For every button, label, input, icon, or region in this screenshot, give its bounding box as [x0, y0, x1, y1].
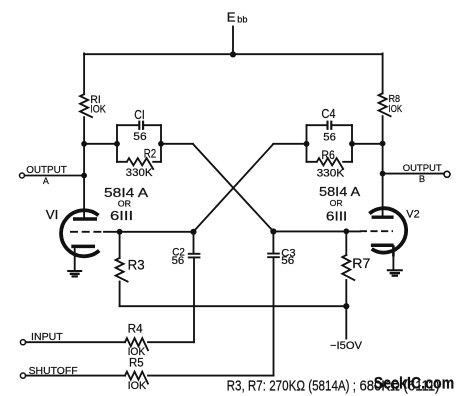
label tube type V1 — [104, 186, 149, 223]
node Ebb junction — [230, 51, 236, 57]
wire bias bus — [120, 305, 347, 307]
svg-text:bb: bb — [237, 15, 247, 25]
svg-text:IOK: IOK — [128, 380, 147, 392]
terminal INPUT — [20, 340, 25, 345]
label tube type V2 — [319, 185, 361, 223]
wire R5 to C3 — [148, 375, 274, 377]
wire node stub plate V1 to network — [84, 143, 117, 145]
node R7 top — [343, 228, 349, 234]
svg-text:IOK: IOK — [389, 104, 403, 115]
wire V1 cathode to ground — [74, 248, 76, 270]
svg-text:58I4 A: 58I4 A — [319, 185, 361, 199]
label R5 value — [128, 356, 147, 391]
capacitor C4 branch — [307, 121, 353, 130]
resistor R4 — [125, 338, 148, 350]
wire V1 plate branch upper — [83, 53, 85, 94]
triode V1 — [61, 210, 104, 256]
svg-text:V2: V2 — [406, 209, 419, 221]
wire -150V stub — [345, 306, 347, 338]
label OUTPUT B — [403, 163, 442, 184]
grid V2 dashed — [360, 230, 393, 232]
wire V2 cathode to ground — [392, 255, 394, 270]
resistor R6 — [307, 158, 353, 169]
label component values note — [227, 378, 440, 395]
label Ebb — [227, 10, 248, 25]
svg-text:6III: 6III — [326, 208, 347, 223]
resistor R3 — [116, 258, 128, 282]
cathode V2 — [371, 243, 394, 247]
wire cross-coupling diagonal to V2 grid — [193, 144, 273, 232]
svg-text:56: 56 — [323, 132, 336, 144]
svg-text:SeekIC.com: SeekIC.com — [374, 374, 455, 393]
wire network box sides right — [307, 125, 353, 162]
ground V2 — [387, 270, 403, 275]
svg-text:58I4 A: 58I4 A — [104, 186, 149, 200]
plate V2 — [372, 215, 394, 218]
svg-text:56: 56 — [133, 131, 146, 143]
node plate V1 — [81, 141, 87, 147]
capacitor C2 — [188, 232, 201, 342]
svg-text:VI: VI — [46, 208, 59, 222]
terminal OUTPUT A — [20, 173, 25, 178]
wire network box sides left — [117, 125, 161, 162]
svg-text:E: E — [227, 10, 236, 25]
wire R7 branch upper — [345, 231, 347, 255]
svg-text:R5: R5 — [129, 356, 144, 369]
svg-text:R7: R7 — [352, 256, 370, 271]
label R8 value — [389, 94, 403, 115]
wire R4 to C2 — [148, 341, 194, 343]
wire SHUTOFF lead — [26, 375, 125, 377]
label R2 value — [126, 147, 157, 179]
label C4 — [321, 107, 336, 143]
svg-text:C4: C4 — [321, 107, 335, 121]
wire cross-coupling diagonal to V1 grid — [194, 144, 274, 232]
terminal OUTPUT B — [444, 171, 450, 177]
node network2 right — [349, 141, 355, 147]
label R6 value — [317, 148, 345, 180]
terminal SHUTOFF — [20, 373, 25, 378]
svg-text:−I5OV: −I5OV — [330, 340, 363, 352]
wire V2 plate branch upper — [382, 53, 384, 93]
wire R3 branch upper — [119, 232, 121, 258]
resistor R5 — [125, 372, 148, 384]
node OUTPUT A — [81, 173, 87, 179]
wire R3 branch lower — [119, 282, 121, 307]
svg-text:B: B — [419, 174, 425, 184]
svg-text:CI: CI — [134, 108, 145, 122]
wire stub to diagonal — [161, 143, 193, 145]
resistor R8 — [379, 93, 391, 116]
svg-text:R3: R3 — [128, 257, 145, 272]
node network2 left — [304, 141, 310, 147]
svg-text:56: 56 — [172, 255, 185, 267]
wire V2 grid line — [273, 230, 360, 232]
wire stub to diagonal 2 — [273, 143, 306, 145]
svg-text:R6: R6 — [321, 148, 334, 162]
svg-text:IOK: IOK — [90, 104, 106, 116]
plate V1 — [73, 217, 97, 220]
wire stub network2 to R8 — [352, 143, 383, 145]
svg-text:R2: R2 — [144, 147, 156, 161]
node C3 top — [270, 228, 276, 234]
svg-text:R3, R7: 270KΩ (5814A) ;: R3, R7: 270KΩ (5814A) ; — [227, 378, 356, 395]
node R3 top — [117, 229, 123, 235]
label C3 — [281, 247, 295, 267]
wire top supply bus — [84, 53, 383, 55]
node network left — [114, 141, 120, 147]
label C2 — [172, 246, 185, 266]
node network right — [158, 141, 164, 147]
wire OUTPUT A lead — [25, 175, 85, 177]
svg-text:6III: 6III — [110, 208, 133, 223]
triode V2 — [360, 208, 406, 256]
label R1 value — [90, 94, 106, 116]
svg-text:OR: OR — [330, 199, 343, 208]
node OUTPUT B — [380, 171, 386, 177]
label OUTPUT A — [26, 165, 67, 186]
wire R7 branch lower — [345, 280, 347, 306]
svg-text:56: 56 — [281, 255, 294, 267]
grid V1 dashed — [70, 231, 105, 233]
wire V2 plate branch lower — [382, 116, 384, 217]
wire INPUT lead — [26, 341, 125, 343]
label C1 — [133, 108, 146, 143]
wire V1 grid line — [104, 231, 194, 233]
node plate V2 — [380, 141, 386, 147]
node C2 top — [190, 229, 196, 235]
cathode V1 — [71, 245, 95, 249]
svg-text:330K: 330K — [126, 167, 153, 179]
envelope V2 — [369, 208, 406, 252]
resistor R1 — [80, 94, 92, 117]
ground V1 — [67, 271, 82, 276]
node bias bus R7 — [343, 303, 349, 309]
svg-text:A: A — [43, 176, 49, 186]
wire OUTPUT B lead — [383, 173, 444, 175]
capacitor C1 branch — [117, 121, 161, 130]
svg-text:R4: R4 — [128, 322, 144, 335]
svg-text:OUTPUT: OUTPUT — [403, 163, 442, 174]
wire V1 plate branch lower — [83, 117, 85, 219]
svg-text:330K: 330K — [317, 167, 345, 179]
resistor R2 — [117, 158, 161, 169]
capacitor C3 — [267, 232, 280, 376]
resistor R7 — [342, 255, 354, 280]
cathode V2 descender — [392, 245, 395, 256]
envelope V1 — [61, 210, 99, 256]
svg-text:OUTPUT: OUTPUT — [26, 165, 67, 176]
wire Ebb stub — [232, 27, 234, 55]
label R4 value — [128, 322, 146, 358]
